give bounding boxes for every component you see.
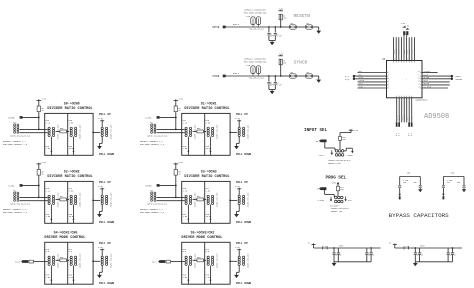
svg-text:28: 28 bbox=[412, 58, 414, 60]
supply filter A rail bbox=[314, 247, 381, 249]
svg-text:PULL DOWN: PULL DOWN bbox=[236, 153, 251, 156]
wire bbox=[171, 261, 185, 263]
bypass cap pair B top rail bbox=[443, 176, 464, 178]
wire bbox=[344, 150, 346, 152]
U1 right pin wire OUT1 bbox=[422, 81, 450, 83]
wire bbox=[20, 196, 48, 198]
svg-text:4816P-T02-103: 4816P-T02-103 bbox=[247, 192, 250, 208]
U1 bottom pin wire OUT3 bbox=[401, 98, 403, 123]
svg-text:25: 25 bbox=[404, 58, 406, 60]
resistor network R27 bbox=[207, 195, 209, 197]
svg-text:OUT1: OUT1 bbox=[424, 80, 428, 82]
block S5-&gt;OCH3/CH2 divider bbox=[204, 242, 206, 284]
U1 right pin wire OUT0B bbox=[422, 78, 451, 80]
input terminal CLK bbox=[353, 75, 356, 78]
capacitor (supply filter B.3) bbox=[447, 248, 449, 252]
svg-text:1U: 1U bbox=[454, 255, 456, 257]
block S1-&gt;OCH1 divider bbox=[204, 113, 206, 155]
svg-text:C: C bbox=[454, 252, 455, 254]
svg-text:29: 29 bbox=[414, 58, 416, 60]
resistor network R2C bbox=[207, 256, 209, 258]
svg-text:PULL DOWN: PULL DOWN bbox=[99, 153, 114, 156]
svg-text:PULL UP: PULL UP bbox=[99, 113, 111, 116]
svg-text:18: 18 bbox=[418, 71, 420, 73]
svg-text:SYN6B: SYN6B bbox=[212, 75, 220, 78]
power 3.3V flag (input sel) bbox=[349, 129, 354, 131]
U1 top pin wire 8 bbox=[411, 37, 413, 60]
wire bbox=[157, 200, 185, 202]
svg-text:P1: P1 bbox=[389, 243, 391, 245]
svg-text:C: C bbox=[368, 252, 369, 254]
svg-text:PULL UP: PULL UP bbox=[99, 242, 111, 245]
resistor network R24 bbox=[185, 127, 187, 129]
svg-text:21: 21 bbox=[393, 58, 395, 60]
svg-text:C: C bbox=[449, 252, 450, 254]
resnet ground stub bbox=[210, 266, 212, 285]
capacitor C48 (B left) bbox=[442, 177, 444, 186]
svg-text:14: 14 bbox=[418, 83, 420, 85]
wire bbox=[20, 128, 48, 130]
wire bbox=[324, 142, 326, 148]
svg-text:1U: 1U bbox=[368, 255, 370, 257]
supply arrow (B) bbox=[442, 194, 444, 197]
svg-text:S1->OCH1: S1->OCH1 bbox=[201, 102, 217, 106]
wire bbox=[230, 260, 237, 262]
svg-text:OUT0B: OUT0B bbox=[424, 77, 430, 79]
svg-text:P1?CONF??: P1?CONF?? bbox=[330, 205, 339, 207]
jumper P1-A dual posts bbox=[251, 66, 255, 74]
wire bbox=[193, 259, 197, 261]
pull-up resistor bbox=[175, 100, 177, 106]
node junction at box edge bbox=[92, 132, 94, 134]
U1 bottom pin wire OUT2B bbox=[398, 98, 400, 123]
resnet ground stub bbox=[187, 266, 189, 285]
resnet ground stub bbox=[73, 137, 75, 156]
U1 left pin wire SCLK bbox=[358, 84, 387, 86]
power 3.3V flag bbox=[37, 163, 42, 165]
svg-text:FOR MODE CONNECT 2,3: FOR MODE CONNECT 2,3 bbox=[3, 211, 28, 214]
svg-text:3P3V: 3P3V bbox=[332, 182, 336, 184]
resnet ground stub bbox=[50, 205, 52, 224]
svg-text:SYNCB: SYNCB bbox=[294, 59, 308, 65]
svg-text:S3->OCH3: S3->OCH3 bbox=[201, 170, 217, 174]
wire bbox=[281, 75, 290, 77]
ground arrow (I2C side) bbox=[345, 196, 347, 199]
svg-text:PULL UP: PULL UP bbox=[236, 113, 248, 116]
svg-text:R35: R35 bbox=[60, 128, 63, 130]
resnet ground stub bbox=[73, 266, 75, 285]
svg-text:R40: R40 bbox=[197, 257, 200, 259]
svg-text:VDDC: VDDC bbox=[414, 50, 416, 54]
svg-text:S1/B1: S1/B1 bbox=[145, 117, 152, 120]
svg-text:DIVIDER RATIO CONTROL: DIVIDER RATIO CONTROL bbox=[184, 107, 229, 111]
wire bbox=[339, 140, 341, 149]
ground bbox=[270, 91, 275, 94]
header P3 (SPI/I2C select) bbox=[335, 196, 338, 199]
svg-text:PULL UP: PULL UP bbox=[99, 181, 111, 184]
svg-text:S2/B2: S2/B2 bbox=[8, 185, 15, 188]
op IC U1 AD9508 body bbox=[387, 61, 423, 98]
svg-text:24: 24 bbox=[401, 58, 403, 60]
svg-text:R37: R37 bbox=[60, 196, 63, 198]
U1 top pin wire 6 bbox=[406, 35, 408, 60]
U1 bottom pin wire SDO bbox=[406, 98, 408, 123]
U1 bottom pin number 4 bbox=[403, 96, 405, 98]
svg-text:AD9508BCPZ: AD9508BCPZ bbox=[416, 99, 429, 102]
wire bbox=[251, 75, 281, 77]
svg-text:DRIVER MODE CONTROL: DRIVER MODE CONTROL bbox=[181, 236, 222, 240]
svg-text:4816P-T02-103: 4816P-T02-103 bbox=[216, 253, 219, 269]
svg-text:S4->OCH1/CH0: S4->OCH1/CH0 bbox=[54, 231, 78, 235]
block S3-&gt;OCH3 divider bbox=[204, 181, 206, 223]
svg-text:OUT0: OUT0 bbox=[424, 74, 428, 76]
ground arrow (CMOS side) bbox=[351, 148, 353, 151]
svg-text:OUT1B: OUT1B bbox=[424, 83, 430, 85]
svg-text:26: 26 bbox=[406, 58, 408, 60]
supply filter B ground bbox=[414, 262, 416, 263]
svg-text:SAMTEC-TSW-103-07-G-D: SAMTEC-TSW-103-07-G-D bbox=[328, 159, 350, 162]
U1 left pin wire REF bbox=[358, 72, 387, 74]
svg-text:EPAD: EPAD bbox=[411, 116, 414, 120]
svg-text:R35 0: R35 0 bbox=[233, 72, 240, 75]
node junction bbox=[268, 75, 270, 77]
svg-text:PULL DOWN: PULL DOWN bbox=[99, 221, 114, 224]
U1 bottom pin wire OUT2 bbox=[396, 98, 398, 123]
U1 right pin wire STATUS bbox=[422, 72, 438, 74]
U1 bottom pin number 3 bbox=[401, 96, 403, 98]
svg-text:PULL DOWN: PULL DOWN bbox=[236, 282, 251, 285]
svg-text:PULL DOWN: PULL DOWN bbox=[99, 282, 114, 285]
block S0-&gt;OCH0 outline bbox=[45, 113, 93, 155]
U1 top pin wire 7 bbox=[408, 37, 410, 60]
node junction at box edge bbox=[229, 200, 231, 202]
wire bbox=[251, 26, 281, 28]
svg-text:4816P-T02-103: 4816P-T02-103 bbox=[110, 124, 113, 140]
U1 bottom pin wire GND bbox=[408, 98, 410, 123]
block S3-&gt;OCH3 outline bbox=[182, 181, 230, 223]
pull resistor network bbox=[101, 195, 103, 197]
resistor R17 10K bbox=[337, 186, 340, 191]
svg-text:4816P-T02-103: 4816P-T02-103 bbox=[216, 124, 219, 140]
U1 bottom pin wire EPAD bbox=[411, 98, 413, 123]
wire bbox=[23, 116, 39, 118]
wire bbox=[337, 191, 339, 196]
capacitor (supply filter A.2) bbox=[337, 248, 339, 252]
resnet ground stub bbox=[50, 137, 52, 156]
U1 top pin wire 3 bbox=[398, 37, 400, 60]
pull resistor network bbox=[101, 256, 103, 258]
wire bbox=[20, 200, 48, 202]
U1 right pin wire OUT1B bbox=[422, 84, 450, 86]
svg-text:PULL UP: PULL UP bbox=[236, 242, 248, 245]
wire bbox=[269, 40, 275, 42]
svg-text:S5->OCH3/CH2: S5->OCH3/CH2 bbox=[191, 231, 215, 235]
block S0-&gt;OCH0 divider bbox=[67, 113, 69, 155]
wire bbox=[337, 184, 339, 186]
capacitor C49 (B right) bbox=[463, 177, 465, 186]
svg-text:AD9508: AD9508 bbox=[424, 113, 449, 121]
block S5-&gt;OCH3/CH2 outline bbox=[182, 242, 230, 284]
svg-text:I2C: I2C bbox=[348, 199, 353, 202]
svg-text:SDIO: SDIO bbox=[359, 86, 363, 88]
power 3.3V flag bbox=[278, 55, 283, 57]
resistor network R26 bbox=[185, 195, 187, 197]
svg-text:4816P-T02-103: 4816P-T02-103 bbox=[79, 124, 82, 140]
resistor network R16 bbox=[48, 195, 50, 197]
series resistor on entry bbox=[166, 260, 171, 263]
U1 top pin wire 1 bbox=[393, 37, 395, 60]
wire bbox=[281, 26, 290, 28]
capacitor (supply filter B.2) bbox=[419, 248, 421, 252]
U1 right pin wire OUT0 bbox=[422, 75, 451, 77]
power 3.3V flag bbox=[174, 99, 179, 101]
bypass cap pair A top rail bbox=[400, 176, 421, 178]
bottom pad OUT2 bbox=[396, 122, 398, 126]
series resistor on entry bbox=[29, 260, 34, 263]
wire bbox=[193, 130, 197, 132]
svg-text:FOR MODE CONNECT 2,3: FOR MODE CONNECT 2,3 bbox=[140, 143, 165, 146]
capacitor C49 (A right) bbox=[419, 177, 421, 186]
svg-text:P1: P1 bbox=[308, 243, 310, 245]
svg-text:R39: R39 bbox=[60, 257, 63, 259]
svg-text:S3/B3: S3/B3 bbox=[145, 185, 152, 188]
pull-up resistor bbox=[175, 164, 177, 170]
ground (pull-down) bbox=[238, 137, 240, 144]
svg-text:17: 17 bbox=[418, 75, 420, 77]
wire bbox=[297, 26, 306, 28]
svg-text:REF: REF bbox=[359, 71, 362, 73]
svg-text:OUT0B: OUT0B bbox=[456, 78, 463, 81]
ground bbox=[316, 31, 321, 34]
svg-text:SAMTEC-TSW-103-07: SAMTEC-TSW-103-07 bbox=[331, 207, 349, 210]
U1 bottom pin wire OUT3B bbox=[403, 98, 405, 123]
pull-up resistor bbox=[38, 164, 40, 170]
svg-text:DIVIDER RATIO CONTROL: DIVIDER RATIO CONTROL bbox=[47, 107, 92, 111]
pull-up resistor R bbox=[280, 75, 282, 77]
U1 bottom pin number 2 bbox=[398, 96, 400, 98]
input terminal CLKB bbox=[353, 78, 356, 81]
bottom pad OUT2B bbox=[398, 122, 400, 126]
svg-text:DEFAULT SPI: DEFAULT SPI bbox=[331, 210, 343, 213]
svg-text:TSW-103-07-G-S: TSW-103-07-G-S bbox=[249, 29, 264, 31]
resistor network R15 bbox=[70, 127, 72, 129]
svg-text:TSW-103-07-G-S: TSW-103-07-G-S bbox=[249, 78, 264, 80]
wire bbox=[230, 131, 237, 133]
capacitor (supply filter A.3) bbox=[366, 248, 368, 252]
U1 top pin wire 9 bbox=[413, 37, 415, 60]
resnet ground stub bbox=[187, 137, 189, 156]
series resistor R39 bbox=[60, 259, 67, 262]
U1 right pin wire CS_RSTB bbox=[422, 87, 448, 89]
pull-up resistor bbox=[38, 100, 40, 106]
resistor R16 10K bbox=[339, 137, 342, 141]
junction bbox=[333, 247, 335, 249]
supply filter A bottom wire bbox=[334, 261, 371, 263]
U1 bottom pin number 6 bbox=[408, 96, 410, 98]
svg-text:C: C bbox=[340, 252, 341, 254]
capacitor C3 bbox=[268, 27, 270, 33]
supply filter A ground bbox=[333, 262, 335, 263]
svg-text:S4_0: S4_0 bbox=[15, 261, 21, 264]
ground (pull-down) bbox=[238, 205, 240, 212]
wire bbox=[23, 184, 39, 186]
series resistor R38 bbox=[197, 198, 204, 201]
svg-text:PROG SEL: PROG SEL bbox=[326, 175, 347, 180]
bottom pad GND bbox=[408, 122, 410, 126]
series resistor R35 bbox=[60, 130, 67, 133]
wire bbox=[56, 259, 60, 261]
U1 top pin wire 2 bbox=[395, 37, 397, 60]
resistor network R25 bbox=[207, 127, 209, 129]
pull resistor network bbox=[101, 127, 103, 129]
resistor network R1C bbox=[70, 256, 72, 258]
U1 top pin wire 4 bbox=[400, 37, 402, 60]
svg-text:PULL UP: PULL UP bbox=[236, 181, 248, 184]
svg-text:DRIVER MODE CONTROL: DRIVER MODE CONTROL bbox=[44, 236, 85, 240]
svg-text:4816P-T02-103: 4816P-T02-103 bbox=[110, 253, 113, 269]
pull-up resistor R bbox=[280, 26, 282, 28]
wire bbox=[313, 75, 319, 77]
U1 top pin wire 5 bbox=[403, 35, 405, 60]
svg-text:0.1UF: 0.1UF bbox=[277, 85, 282, 87]
U1 left pin wire SDIO bbox=[358, 87, 387, 89]
pin1 arrow bbox=[331, 150, 333, 153]
wire bbox=[230, 199, 237, 201]
wire bbox=[56, 130, 60, 132]
node junction at box edge bbox=[229, 260, 231, 262]
svg-text:4816P-T02-103: 4816P-T02-103 bbox=[247, 124, 250, 140]
power flag (prog sel) bbox=[337, 182, 340, 184]
svg-text:LVTS: LVTS bbox=[319, 154, 325, 157]
svg-text:0.1UF: 0.1UF bbox=[277, 36, 282, 38]
capacitor (supply filter A.4) bbox=[370, 248, 372, 252]
svg-text:S0/B0: S0/B0 bbox=[8, 117, 15, 120]
svg-text:C: C bbox=[417, 252, 418, 254]
pull resistor network bbox=[238, 256, 240, 258]
node junction at box edge bbox=[92, 200, 94, 202]
pin1 arrow bbox=[330, 197, 332, 200]
supply filter B bottom wire bbox=[415, 261, 452, 263]
U1 left pin wire CLK bbox=[355, 75, 386, 77]
resnet ground stub bbox=[50, 266, 52, 285]
svg-text:CMOS: CMOS bbox=[347, 154, 353, 157]
ground (pull-down) bbox=[101, 266, 103, 273]
node junction bbox=[268, 26, 270, 28]
svg-text:3.3V: 3.3V bbox=[405, 25, 409, 27]
wire bbox=[160, 116, 176, 118]
U1 left pin wire SYNCB bbox=[358, 81, 387, 83]
block S2-&gt;OCH2 divider bbox=[67, 181, 69, 223]
series resistor R37 bbox=[60, 198, 67, 201]
svg-text:R38: R38 bbox=[197, 196, 200, 198]
ground (A) bbox=[418, 189, 422, 192]
svg-text:C: C bbox=[421, 252, 422, 254]
resistor network R28 bbox=[185, 256, 187, 258]
wire bbox=[93, 260, 100, 262]
wire bbox=[226, 26, 251, 28]
svg-text:10.0K: 10.0K bbox=[206, 215, 213, 218]
svg-text:C: C bbox=[372, 252, 373, 254]
bottom pad EPAD bbox=[411, 122, 413, 126]
wire bbox=[93, 131, 100, 133]
wire bbox=[157, 128, 185, 130]
svg-text:L1 FB: L1 FB bbox=[322, 246, 328, 248]
wire bbox=[297, 75, 306, 77]
capacitor (supply filter A.1) bbox=[333, 248, 335, 252]
svg-text:27: 27 bbox=[409, 58, 411, 60]
ground bbox=[270, 42, 275, 45]
svg-text:L1 FB: L1 FB bbox=[404, 246, 410, 248]
svg-text:4816P-T02-103: 4816P-T02-103 bbox=[79, 192, 82, 208]
wire bbox=[269, 89, 275, 91]
power flag VDD (E2) bbox=[406, 28, 409, 30]
svg-text:15: 15 bbox=[418, 80, 420, 82]
U1 bottom pin number 1 bbox=[396, 96, 398, 98]
svg-text:23: 23 bbox=[399, 58, 401, 60]
power 3.3V flag bbox=[278, 10, 283, 12]
series resistor R40 bbox=[197, 259, 204, 262]
svg-text:S0->OCH0: S0->OCH0 bbox=[64, 102, 80, 106]
wire bbox=[324, 190, 326, 194]
wire bbox=[313, 26, 319, 28]
svg-text:CS_RSTB: CS_RSTB bbox=[424, 86, 432, 88]
wire bbox=[93, 199, 100, 201]
U1 bottom pin number 7 bbox=[411, 96, 413, 98]
node junction at box edge bbox=[92, 260, 94, 262]
supply filter B rail bbox=[395, 247, 462, 249]
U1 bottom pin number 5 bbox=[406, 96, 408, 98]
capacitor (supply filter B.4) bbox=[451, 248, 453, 252]
svg-text:FOR MODE CONNECT 2,3: FOR MODE CONNECT 2,3 bbox=[140, 211, 165, 214]
svg-text:1U: 1U bbox=[340, 255, 342, 257]
svg-text:STATUS: STATUS bbox=[424, 70, 430, 73]
block S2-&gt;OCH2 outline bbox=[45, 181, 93, 223]
svg-text:C: C bbox=[335, 252, 336, 254]
wire bbox=[350, 130, 352, 132]
svg-text:SYNCB: SYNCB bbox=[359, 80, 365, 82]
svg-text:1NF: 1NF bbox=[457, 182, 460, 184]
svg-text:1U: 1U bbox=[421, 255, 423, 257]
node junction at box edge bbox=[229, 132, 231, 134]
ground (B) bbox=[462, 189, 466, 192]
svg-text:4816P-T02-103: 4816P-T02-103 bbox=[79, 253, 82, 269]
svg-text:BYPASS CAPACITORS: BYPASS CAPACITORS bbox=[389, 212, 450, 219]
svg-text:10.0K: 10.0K bbox=[206, 147, 213, 150]
capacitor C4 bbox=[274, 27, 276, 33]
svg-text:10PF: 10PF bbox=[270, 36, 274, 38]
wire bbox=[20, 132, 48, 134]
svg-text:1U: 1U bbox=[417, 255, 419, 257]
svg-text:DEFAULT LVDS: DEFAULT LVDS bbox=[328, 162, 341, 165]
block S1-&gt;OCH1 outline bbox=[182, 113, 230, 155]
resnet ground stub bbox=[210, 137, 212, 156]
jumper P1-A dual posts bbox=[251, 17, 255, 25]
test pad E1 bbox=[403, 31, 405, 35]
svg-text:DIVIDER RATIO CONTROL: DIVIDER RATIO CONTROL bbox=[184, 175, 229, 179]
block S4-&gt;OCH1/CH0 outline bbox=[45, 242, 93, 284]
block S4-&gt;OCH1/CH0 divider bbox=[67, 242, 69, 284]
svg-text:1U: 1U bbox=[372, 255, 374, 257]
power 3.3V flag bbox=[174, 163, 179, 165]
output terminal OUT0B bbox=[451, 78, 454, 81]
resnet ground stub bbox=[73, 205, 75, 224]
wire bbox=[193, 198, 197, 200]
U1 left pin wire CLKB bbox=[355, 78, 386, 80]
svg-text:13: 13 bbox=[418, 87, 420, 89]
resistor network R18 bbox=[48, 256, 50, 258]
wire bbox=[56, 198, 60, 200]
svg-text:22: 22 bbox=[396, 58, 398, 60]
